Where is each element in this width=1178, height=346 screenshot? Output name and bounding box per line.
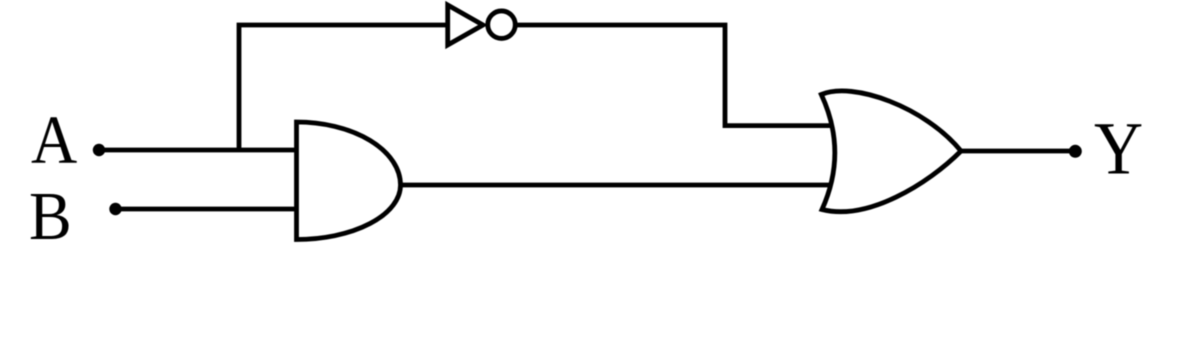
wire NOT gate output down to OR gate top input xyxy=(516,25,839,126)
OR gate U3 xyxy=(821,91,961,212)
wire OR gate output to Y terminal xyxy=(961,149,1075,154)
wire AND gate output to OR gate bottom input xyxy=(398,183,850,188)
NOT gate U1 bubble xyxy=(488,11,516,39)
input terminal dot B xyxy=(109,203,121,215)
wire A input to AND gate xyxy=(99,148,297,153)
NOT gate U1 triangle xyxy=(448,5,483,45)
output terminal dot Y xyxy=(1069,145,1082,158)
svg-text:Y: Y xyxy=(1094,108,1143,191)
wire B input to AND gate xyxy=(116,207,298,212)
input terminal dot A xyxy=(93,144,105,156)
svg-text:A: A xyxy=(31,103,77,178)
wire branch from A wire up to NOT gate input xyxy=(239,25,448,152)
AND gate U2 xyxy=(297,122,401,240)
svg-text:B: B xyxy=(29,179,72,254)
